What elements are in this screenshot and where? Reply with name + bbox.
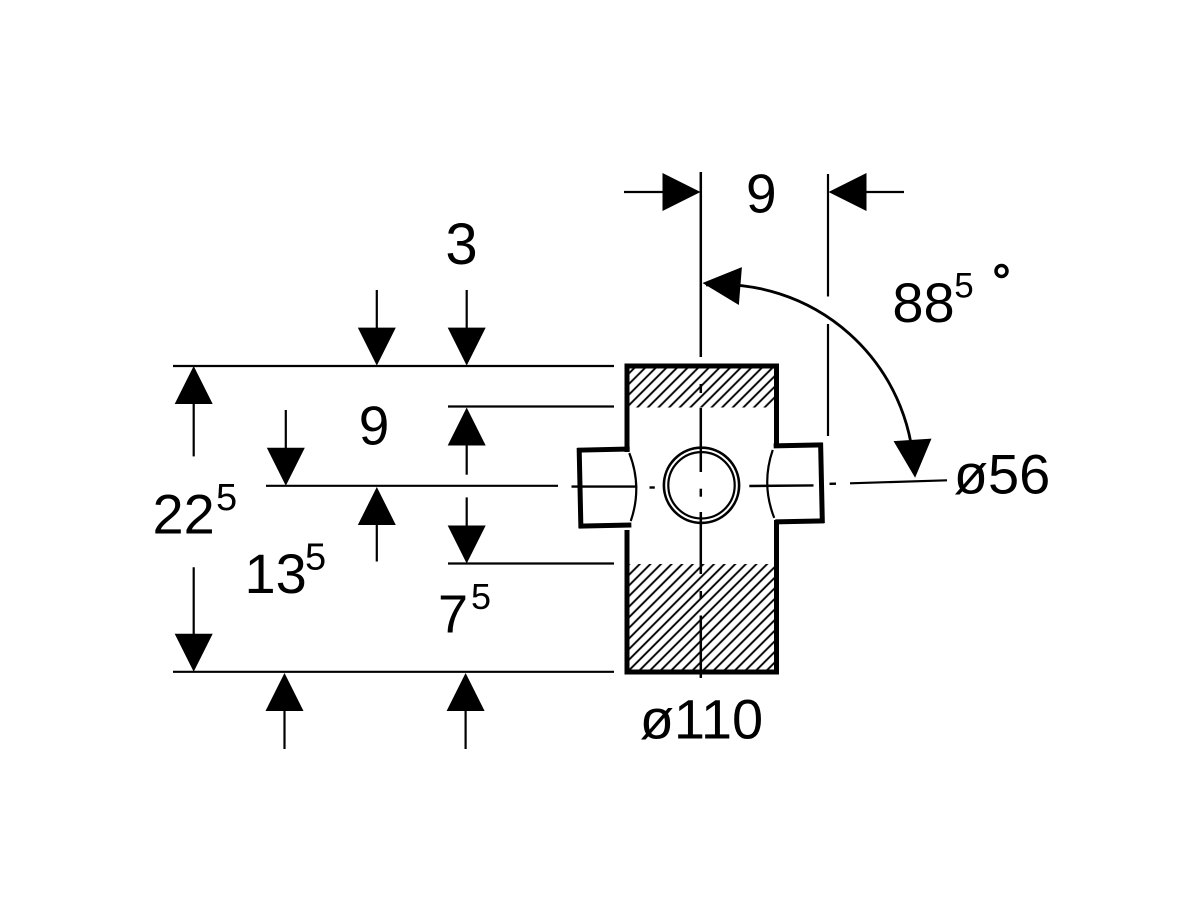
branch sockets group (tilted 1.25deg) [577,443,824,529]
svg-text:13: 13 [245,542,307,605]
node: horizontal branch axis (dash-dot) [572,484,837,488]
wire: extension line L3 (center axis left) [266,485,558,487]
hatch: bottom wall section [630,564,775,670]
degree symbol of 88.5 [996,266,1007,277]
hatch: top wall section [630,369,775,408]
svg-text:9: 9 [746,163,777,225]
dimension 9 (middle): arrows at x=376.8 [376,290,378,562]
dimension 13.5: arrows at x=285 [285,410,286,749]
body outline (pipe fitting section) [627,366,777,672]
angle arc 88.5deg [706,284,914,470]
wire: extension line L5 (bottom face) [173,671,614,673]
wire: extension line L1 (top face) [173,365,614,367]
svg-text:9: 9 [359,395,390,457]
dimension 7.5: arrows at x=466.7 [466,497,467,749]
dimension 9 (top): line and arrows [624,191,904,193]
svg-text:5: 5 [305,537,326,579]
dimension 22.5: arrows at x=193.7 [193,404,195,634]
svg-text:5: 5 [216,477,237,519]
wire: extension line L4 (inner shoulder bottom) [448,562,614,564]
bore circle outer [664,448,739,523]
wire: leader line to diameter 56 [850,480,947,483]
svg-text:ø110: ø110 [640,688,763,751]
right socket mouth arc [766,450,774,518]
svg-text:ø56: ø56 [954,442,1051,505]
svg-text:3: 3 [445,212,477,277]
wire: extension line L2 (inner shoulder top) [448,405,614,407]
svg-text:88: 88 [892,271,954,334]
wire: right extension line of top dimension 9 [827,174,829,436]
right socket stub [774,443,825,524]
svg-text:22: 22 [153,483,215,546]
bore circle inner [668,452,734,518]
node: vertical centerline (dash-dot) [700,172,703,678]
dimension 3: arrows at x=466.7 [466,290,468,475]
erase body edge at branch openings [624,452,630,530]
svg-text:5: 5 [954,267,973,306]
left socket mouth arc [629,453,637,521]
svg-text:5: 5 [471,576,491,617]
svg-text:7: 7 [438,585,468,645]
left socket stub [577,447,631,529]
